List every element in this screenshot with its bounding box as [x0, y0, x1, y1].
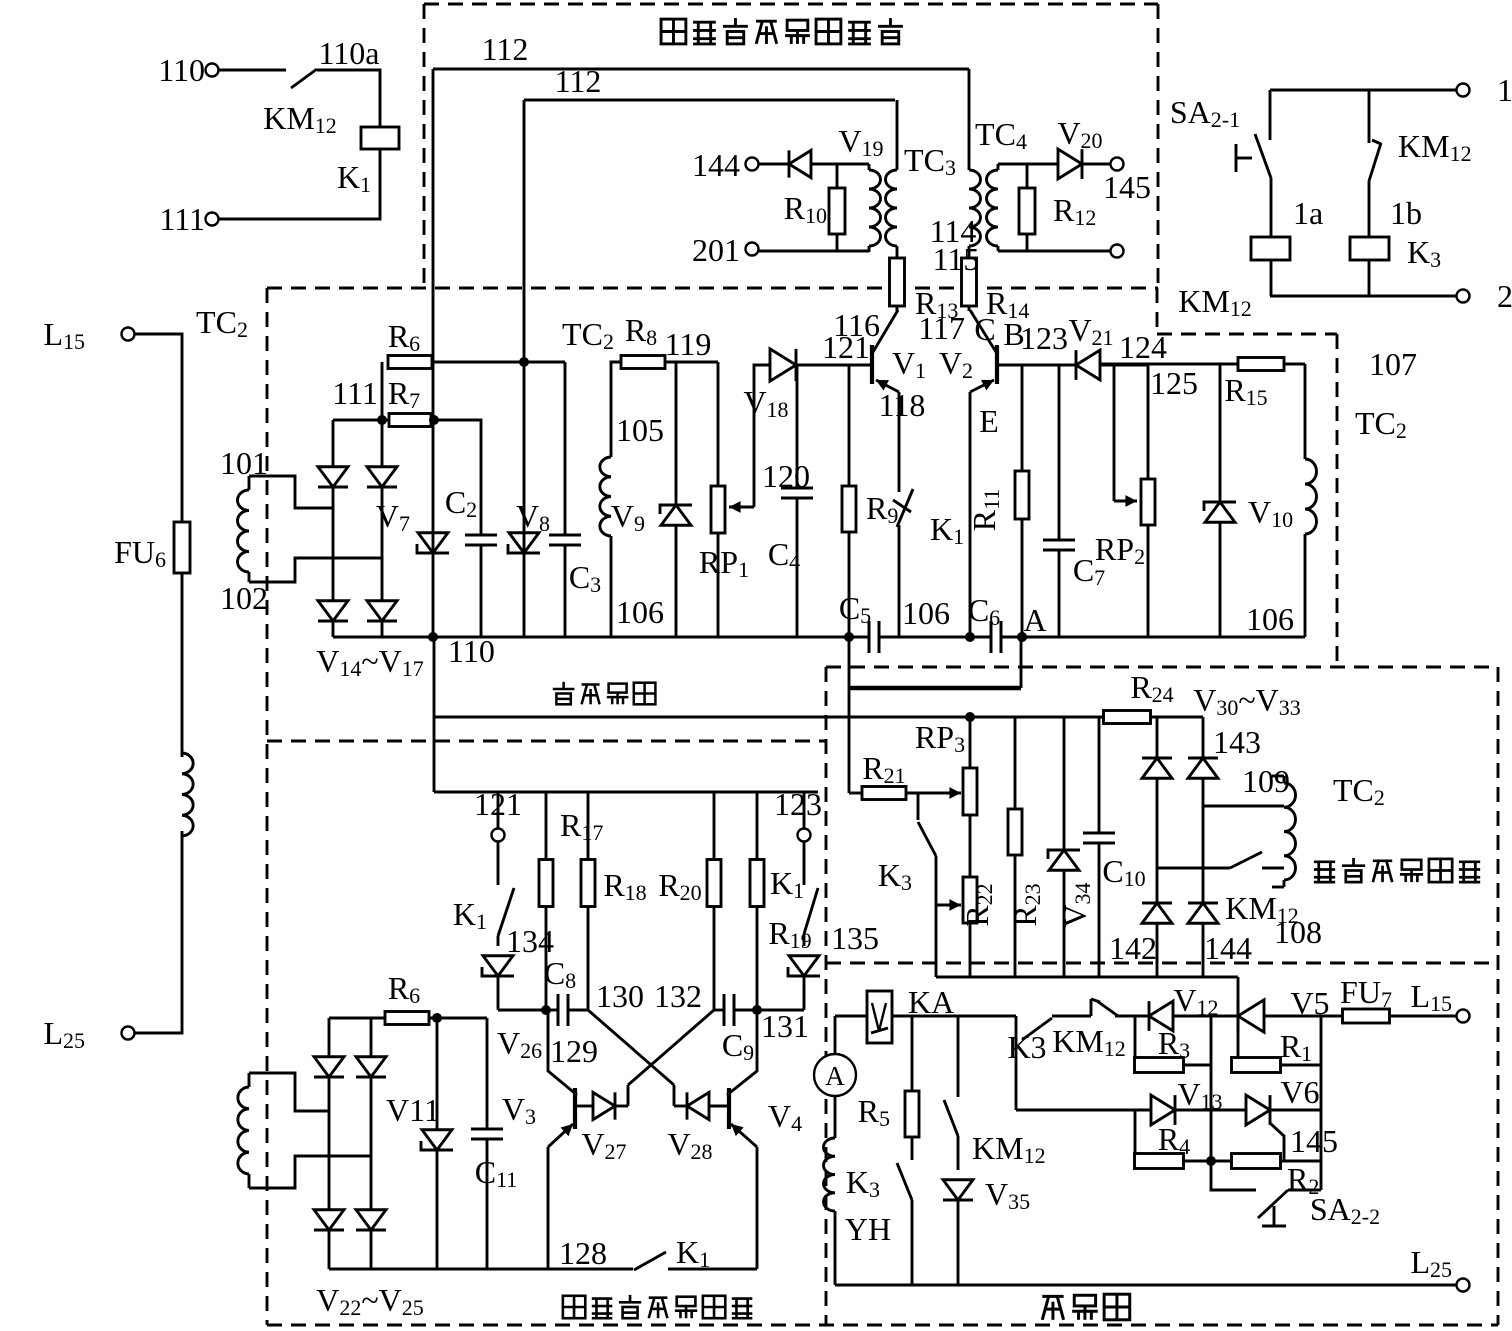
label K3 main: [1007, 1029, 1046, 1065]
node R11 rail: [1017, 632, 1027, 642]
svg-text:112: 112: [482, 31, 529, 67]
resistor R12: [1019, 164, 1035, 251]
svg-text:123: 123: [774, 786, 822, 822]
label V12: [1173, 982, 1218, 1020]
wiper arrow RP3: [906, 787, 961, 799]
potentiometer R22: [963, 877, 977, 977]
label R13: [915, 285, 958, 323]
label R23 rotated: [1007, 883, 1045, 926]
diode V31: [1188, 758, 1218, 778]
diode V16: [318, 601, 348, 621]
label V35: [985, 1176, 1030, 1214]
label R20: [658, 867, 701, 905]
label 124: [1119, 329, 1167, 365]
svg-text:111: 111: [159, 201, 205, 237]
label V22~V25: [316, 1282, 424, 1320]
label terminal 1: [1497, 72, 1512, 108]
terminal 121: [492, 792, 505, 842]
label 102: [220, 580, 268, 616]
svg-text:110: 110: [158, 52, 205, 88]
svg-text:130: 130: [596, 978, 644, 1014]
svg-text:117: 117: [918, 310, 965, 346]
dashed box: shared boundary given-voltage/main circuit: [826, 962, 1498, 965]
wire multivib bottom rail left: [329, 1268, 633, 1271]
label TC3: [904, 142, 956, 180]
label R6 upper: [388, 318, 420, 356]
label 130: [596, 978, 644, 1014]
node rail V8: [519, 357, 529, 367]
wire bridge bottom rail: [936, 976, 1238, 979]
label V8: [516, 498, 550, 536]
svg-text:112: 112: [555, 63, 602, 99]
zener V7: [417, 533, 449, 553]
wire C2 column: [435, 420, 481, 637]
switch KM12 given: [1230, 852, 1262, 868]
node C9 right: [752, 1005, 762, 1015]
fuse FU7: [1343, 1009, 1390, 1023]
wire bottom right bus: [1270, 295, 1457, 298]
label 110 node: [448, 633, 495, 669]
svg-text:YH: YH: [845, 1211, 891, 1247]
svg-text:V6: V6: [1280, 1074, 1319, 1110]
wire TC4 top: [998, 163, 1058, 166]
capacitor C3: [549, 535, 581, 545]
diode V18: [770, 349, 796, 381]
wire R24 to bridge: [1151, 716, 1203, 719]
switch K1 in comparison: [893, 489, 913, 527]
svg-text:108: 108: [1274, 914, 1322, 950]
label V5: [1290, 985, 1329, 1021]
label R3: [1158, 1025, 1190, 1063]
label 112 second: [555, 63, 602, 99]
svg-text:145: 145: [1103, 169, 1151, 205]
svg-text:145: 145: [1290, 1123, 1338, 1159]
label 101: [220, 445, 268, 481]
label TC2 top-left: [196, 304, 248, 342]
label K3 small: [878, 857, 912, 895]
wire R8 right rail: [665, 361, 718, 364]
label 129: [550, 1033, 598, 1069]
label V6: [1280, 1074, 1319, 1110]
switch K3 small: [918, 793, 936, 856]
potentiometer RP3: [963, 717, 977, 877]
capacitor C6: [991, 621, 1001, 653]
label R9: [866, 490, 898, 528]
label terminal 2: [1497, 278, 1512, 314]
wire L15 down: [134, 334, 182, 522]
label C2: [445, 484, 477, 522]
winding TC4 secondary: [987, 164, 999, 251]
label 119: [665, 326, 712, 362]
label 142: [1109, 930, 1157, 966]
label 115: [933, 241, 980, 277]
diode V20: [1058, 149, 1082, 179]
wire KA bus: [835, 1015, 1016, 1018]
wiper arrow RP1: [729, 501, 754, 513]
label KM12 lower: [972, 1130, 1046, 1168]
wire TC4 bottom: [998, 250, 1111, 253]
label R8: [625, 312, 657, 350]
wire stub KM12 switch: [1157, 867, 1230, 870]
label given voltage circuit title: [1314, 858, 1480, 882]
label 117: [918, 310, 965, 346]
dashed box: middle vertical edge multivib/given/main: [825, 667, 828, 1325]
wire down to V13 bus: [1015, 1016, 1018, 1110]
potentiometer RP2: [1141, 365, 1155, 637]
wire V4 emitter: [756, 1147, 759, 1269]
label FU7: [1340, 974, 1392, 1012]
label R5: [858, 1093, 890, 1131]
label R4: [1158, 1121, 1190, 1159]
wire 1a to bottom: [1270, 260, 1273, 296]
terminal L15 right: [1457, 1010, 1470, 1023]
diode thyristor V6: [1246, 1095, 1284, 1161]
resistor R17 column: [539, 792, 553, 1010]
label 1b: [1390, 195, 1422, 231]
svg-text:135: 135: [831, 920, 879, 956]
label 1a: [1293, 195, 1323, 231]
capacitor C10 column: [1083, 717, 1115, 977]
zener V29 right branch: [788, 934, 820, 1010]
zener V8: [508, 533, 540, 553]
label multivibrator title: [563, 1295, 752, 1318]
resistor R4: [1135, 1110, 1212, 1169]
label R1: [1280, 1028, 1312, 1066]
label V19: [838, 123, 883, 161]
wire R21 riser: [848, 688, 851, 793]
wire multivib top rail: [437, 791, 818, 794]
wire 1b to bottom: [1368, 260, 1371, 296]
diode V14: [318, 467, 348, 487]
wire 111 node: [333, 419, 389, 422]
label 118: [879, 387, 926, 423]
label 145 main: [1290, 1123, 1338, 1159]
winding TC2 given: [1272, 776, 1296, 887]
label C3: [569, 559, 601, 597]
label V4: [768, 1098, 802, 1136]
svg-text:KA: KA: [908, 984, 954, 1020]
resistor R14: [962, 258, 977, 311]
svg-text:A: A: [1023, 602, 1046, 638]
diode V19: [789, 150, 811, 177]
terminal 145b: [1111, 245, 1124, 258]
wire 123 to switch: [803, 842, 806, 885]
wire bridge2 left column: [1156, 717, 1159, 977]
terminal 201: [746, 243, 759, 256]
resistor R19 column: [750, 792, 764, 1010]
wire ammeter riser: [834, 1016, 837, 1054]
wire multivib rail riser: [434, 791, 437, 794]
diode thyristor V5: [1238, 977, 1264, 1065]
label C7: [1073, 552, 1105, 590]
svg-text:1: 1: [1497, 72, 1512, 108]
label V7: [376, 498, 410, 536]
inductor YH: [823, 1138, 835, 1211]
wiper arrow RP2: [1114, 495, 1137, 507]
label R2: [1287, 1161, 1319, 1199]
label 111 node: [332, 375, 378, 411]
label KM12 right: [1398, 128, 1472, 166]
wire 201 to winding: [758, 251, 869, 252]
label comparison circuit title: [0, 0, 1, 1]
wire bridge2 right column: [1202, 717, 1205, 977]
potentiometer RP1: [711, 362, 725, 637]
wire V20 to 145: [1082, 163, 1111, 166]
label 107: [1369, 346, 1417, 382]
thick bypass wire: [849, 686, 1021, 691]
resistor R7: [389, 414, 431, 427]
resistor R3: [1135, 1016, 1212, 1073]
wire V26 to C8 node: [498, 1009, 546, 1012]
label RP2: [1095, 531, 1145, 569]
wire SA branch: [1269, 90, 1272, 140]
winding TC4 primary: [969, 69, 981, 258]
dashed box: bottom edge: [267, 1324, 1498, 1327]
wire 121 to switch: [497, 842, 500, 885]
label L15: [43, 316, 85, 354]
capacitor C2: [465, 535, 497, 545]
label R19: [768, 915, 811, 953]
label 108: [1274, 914, 1322, 950]
svg-text:106: 106: [616, 594, 664, 630]
wire V7 column: [432, 420, 435, 637]
resistor R11 column: [1015, 365, 1029, 637]
resistor R21: [849, 787, 906, 800]
winding TC2 inner: [600, 457, 611, 536]
label KM12 given: [1225, 890, 1299, 928]
relay coil 1a: [1251, 237, 1290, 260]
label 106 right: [1246, 601, 1294, 637]
zener V10 column: [1204, 364, 1236, 637]
label 106 rail: [902, 595, 950, 631]
node R7 right: [429, 415, 439, 425]
resistor R8: [621, 356, 665, 369]
terminal 2: [1457, 290, 1470, 303]
svg-text:119: 119: [665, 326, 712, 362]
svg-text:E: E: [979, 403, 999, 439]
wire V19 to winding: [811, 163, 869, 166]
label K1 multivib right: [770, 865, 804, 903]
label 110a: [318, 35, 379, 71]
label 145 top: [1103, 169, 1151, 205]
terminal 145 top: [1111, 158, 1124, 171]
winding TC2 secondary lower: [238, 1073, 371, 1188]
label comparison circuit title: [553, 682, 656, 705]
svg-text:111: 111: [332, 375, 378, 411]
terminal L25: [122, 1027, 135, 1040]
label V28: [667, 1126, 712, 1164]
wire K1 coil to 111: [218, 149, 380, 219]
label V27: [581, 1126, 626, 1164]
fuse FU6: [174, 522, 190, 573]
capacitor C5: [869, 621, 879, 653]
node A: [1017, 632, 1027, 642]
label R11 rotated: [966, 489, 1004, 532]
label 144 given: [1204, 930, 1252, 966]
wire TC2 inner top: [611, 362, 621, 637]
wire K3 to rail: [935, 856, 938, 977]
label C9: [722, 1027, 754, 1065]
switch KM12 main NC: [1091, 999, 1118, 1016]
label 111: [159, 201, 205, 237]
wire coil to L25: [134, 831, 182, 1033]
zener V11: [421, 1130, 453, 1150]
wire FU7 to L15: [1390, 1015, 1457, 1018]
zener V26: [482, 936, 514, 1010]
svg-text:1b: 1b: [1390, 195, 1422, 231]
wire rail left: [333, 636, 869, 639]
transistor V4: [727, 1010, 757, 1147]
terminal 144: [746, 158, 759, 171]
terminal 110: [206, 64, 219, 77]
diode V17: [367, 601, 397, 621]
label FU6: [114, 534, 166, 572]
label 128: [559, 1235, 607, 1271]
wire 144 to V19: [758, 163, 789, 166]
diode V35: [943, 1136, 973, 1285]
diode V28: [674, 1092, 727, 1119]
dashed box: trigger pulse output circuit block (top): [424, 4, 1158, 288]
diode V21: [1076, 350, 1100, 380]
resistor R1: [1232, 1058, 1322, 1073]
svg-text:121: 121: [822, 329, 870, 365]
label V14~V17: [316, 643, 424, 681]
label 135: [831, 920, 879, 956]
winding TC2 107: [1305, 364, 1317, 637]
svg-text:110a: 110a: [318, 35, 379, 71]
svg-text:131: 131: [761, 1008, 809, 1044]
wire KM12 column: [957, 1016, 960, 1097]
wire rail right: [1001, 636, 1305, 639]
label RP1: [699, 544, 749, 582]
node R9 rail: [844, 632, 854, 642]
diode V22: [314, 1057, 344, 1077]
winding TC3 secondary: [886, 100, 898, 258]
capacitor C9: [714, 994, 757, 1026]
svg-text:102: 102: [220, 580, 268, 616]
label C10: [1102, 853, 1145, 891]
label E: [979, 403, 999, 439]
wire KM branch: [1368, 90, 1371, 143]
wire V13 to V6: [1175, 1109, 1246, 1112]
resistor R15: [1100, 358, 1305, 371]
wire FU6 to primary coil: [181, 573, 184, 757]
label 123 multivib: [774, 786, 822, 822]
inductor TC2 primary: [182, 753, 193, 836]
diode V30: [1142, 758, 1172, 778]
zener V34 column: [1048, 717, 1080, 977]
label 132: [654, 978, 702, 1014]
transistor V3: [548, 1010, 577, 1147]
resistor R23 column: [1008, 717, 1022, 977]
label R24: [1130, 669, 1173, 707]
wire R6 to node: [429, 1017, 487, 1020]
svg-text:A: A: [825, 1061, 845, 1091]
label C11: [475, 1154, 518, 1192]
wire V13 bus: [1016, 1109, 1151, 1112]
svg-text:123: 123: [1020, 320, 1068, 356]
label V30~V33: [1193, 682, 1301, 720]
label R22 rotated: [959, 883, 997, 926]
resistor R6 lower: [385, 1012, 429, 1025]
resistor R5 column: [905, 1016, 919, 1160]
svg-text:121: 121: [474, 786, 522, 822]
svg-text:101: 101: [220, 445, 268, 481]
label R10: [784, 190, 827, 228]
wire zener to C9 node: [757, 1009, 804, 1012]
terminal L25 right: [1457, 1279, 1470, 1292]
wire V18 to V1 base: [796, 364, 872, 367]
relay coil 1b: [1350, 237, 1389, 260]
resistor R24: [1104, 711, 1151, 724]
wiper arrow R22: [936, 899, 961, 911]
terminal 1: [1457, 84, 1470, 97]
label V21: [1068, 312, 1113, 350]
label K1 multivib left: [453, 896, 487, 934]
svg-text:106: 106: [1246, 601, 1294, 637]
terminal 123: [798, 792, 811, 842]
label V18: [743, 384, 788, 422]
label 116: [833, 307, 880, 343]
label TC2 107: [1355, 405, 1407, 443]
resistor R13: [890, 258, 905, 311]
label R18: [603, 867, 646, 905]
wire R7 right: [431, 419, 435, 422]
label L25: [43, 1015, 85, 1053]
terminal L15: [122, 328, 135, 341]
label R12: [1053, 192, 1096, 230]
label V2: [939, 345, 973, 383]
diode V24: [314, 1210, 344, 1230]
wire V1 base: [797, 364, 872, 367]
dashed box: notch right of comparison circuit: [1157, 288, 1337, 667]
wire bypass right: [1020, 637, 1023, 688]
ammeter A: [814, 1054, 856, 1096]
wire C3 column: [564, 362, 567, 637]
switch K3 main: [1022, 1018, 1052, 1040]
label 106 inner: [616, 594, 664, 630]
label V10: [1248, 494, 1293, 532]
node R6 lower: [432, 1013, 442, 1023]
svg-text:106: 106: [902, 595, 950, 631]
dashed box: left edge shared comparison/multivibrator: [266, 288, 269, 1325]
diode V13: [1151, 1095, 1175, 1125]
wire V8 column: [523, 362, 526, 637]
resistor R20 column: [707, 792, 721, 1010]
label 121 base: [822, 329, 870, 365]
wire V2 base right: [997, 364, 1076, 367]
svg-text:2: 2: [1497, 278, 1512, 314]
label B: [1003, 316, 1024, 352]
label A node: [1023, 602, 1046, 638]
diode V23: [356, 1057, 386, 1077]
dashed box: right edge given-voltage/main: [1497, 667, 1500, 1325]
node R7 left: [377, 415, 387, 425]
label trigger title: [661, 18, 903, 44]
dashed box: multivibrator top edge: [267, 740, 826, 743]
label 109: [1242, 763, 1290, 799]
label C6: [968, 592, 1000, 630]
winding TC2 secondary upper: [238, 476, 383, 582]
diode V27: [577, 1092, 628, 1119]
label YH: [845, 1211, 891, 1247]
wire right column: [1320, 1016, 1323, 1190]
resistor R10: [829, 164, 845, 251]
label TC2 given: [1333, 772, 1385, 810]
relay coil K1: [361, 127, 399, 149]
dashed box: given-voltage circuit top edge: [826, 666, 1498, 669]
svg-text:124: 124: [1119, 329, 1167, 365]
